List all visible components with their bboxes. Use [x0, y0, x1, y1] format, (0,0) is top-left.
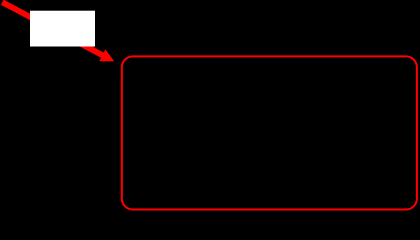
red rounded highlight box — [122, 56, 417, 209]
white box — [30, 11, 95, 47]
arrow shaft — [2, 2, 103, 55]
arrowhead — [99, 49, 114, 61]
